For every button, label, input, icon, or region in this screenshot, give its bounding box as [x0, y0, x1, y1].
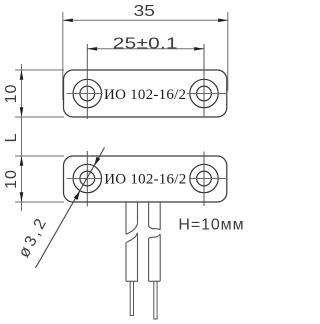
body 2 horizontal centerline left segment [67, 178, 102, 180]
body 2 horizontal centerline right segment [189, 178, 227, 180]
arrowhead left of dimension 25±0.1 [87, 47, 97, 51]
body 2 left hole outer circle [73, 164, 101, 192]
body 2 outline (reed switch ИО 102-16/2) [64, 156, 227, 202]
body 2 right hole vertical centerline [203, 152, 205, 207]
left lead tube upper right line [137, 202, 139, 224]
left vertical dimension line (10 / L / 10) [21, 64, 23, 211]
left wire lead [130, 281, 133, 315]
dimension text 25±0.1 [113, 34, 178, 52]
body 2 right hole outer circle [190, 164, 218, 192]
leader line of hole diameter Ø3.2 [36, 148, 105, 269]
arrowhead upper-right on hole circle [94, 157, 100, 166]
left lead tube lower right line [137, 233, 139, 281]
extension line at top of body 1 [15, 69, 64, 71]
body 2 left hole inner circle [80, 171, 95, 186]
left lead tube lower break curve [126, 233, 138, 243]
left lead tube upper left line [125, 202, 127, 234]
dimension line 35 [63, 19, 228, 21]
body 1 left hole vertical centerline [86, 44, 88, 119]
body 2 left hole vertical centerline [86, 151, 88, 207]
arrowhead lower-left on hole circle [74, 191, 80, 200]
arrowhead right of dimension 35 [218, 19, 228, 23]
body 2 right hole inner circle [197, 171, 212, 186]
dimension line 25±0.1 [87, 48, 204, 50]
extension line at bottom of body 1 [15, 116, 64, 118]
svg-text:H=10мм: H=10мм [178, 216, 244, 233]
arrowhead up at top of dimension 10 (body 1) [20, 70, 24, 80]
svg-text:ИО 102-16/2: ИО 102-16/2 [104, 172, 186, 188]
body 1 outline (magnet ИО 102-16/2) [64, 70, 227, 117]
svg-text:ИО 102-16/2: ИО 102-16/2 [104, 87, 186, 103]
dimension text 35 [134, 2, 156, 20]
right lead tube lower break curve [149, 234, 161, 238]
left lead tube upper break curve [126, 224, 138, 235]
left lead tube lower left line [125, 243, 127, 282]
body 1 horizontal centerline right segment [187, 93, 227, 95]
right lead tube upper right line [159, 202, 161, 230]
svg-text:10: 10 [3, 169, 20, 189]
arrowhead right of dimension 25±0.1 [194, 47, 204, 51]
svg-text:ø3,2: ø3,2 [16, 214, 52, 261]
arrowhead down at bottom of dimension 10 (body 2) [20, 192, 24, 202]
right lead tube lower left line [148, 238, 150, 281]
svg-text:25±0.1: 25±0.1 [113, 34, 178, 52]
body 1 horizontal centerline left segment [67, 93, 103, 95]
svg-text:L: L [3, 133, 20, 143]
body 1 right hole outer circle [190, 79, 218, 107]
body 1 right hole vertical centerline [203, 44, 205, 118]
body 1 right hole inner circle [197, 86, 212, 101]
right lead tube bottom edge [149, 280, 161, 282]
extension line right of dimension 35 [227, 12, 229, 91]
right lead tube lower right line [159, 234, 161, 281]
extension line at top of body 2 [15, 155, 64, 157]
right lead tube upper left line [148, 202, 150, 226]
right lead tube upper break curve [149, 226, 161, 229]
extension line left of dimension 35 [62, 12, 64, 100]
left lead tube bottom edge [126, 280, 138, 282]
body 1 left hole inner circle [80, 86, 95, 101]
body 1 left hole outer circle [73, 79, 101, 107]
extension line at bottom of body 2 [15, 201, 64, 203]
svg-text:35: 35 [134, 2, 156, 20]
arrowhead up at top of dimension 10 (body 2) [20, 156, 24, 166]
arrowhead left of dimension 35 [63, 19, 73, 23]
arrowhead down at bottom of dimension 10 (body 1) [20, 107, 24, 117]
right wire lead [154, 281, 157, 319]
svg-text:10: 10 [3, 84, 20, 104]
